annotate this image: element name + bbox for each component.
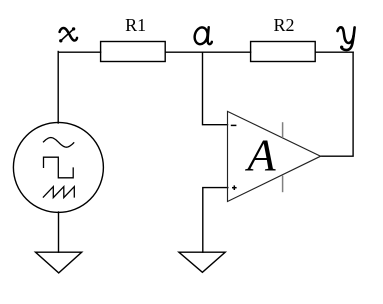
svg-text:R1: R1 [125,15,146,35]
svg-text:R2: R2 [273,15,294,35]
svg-text:A: A [244,130,276,181]
